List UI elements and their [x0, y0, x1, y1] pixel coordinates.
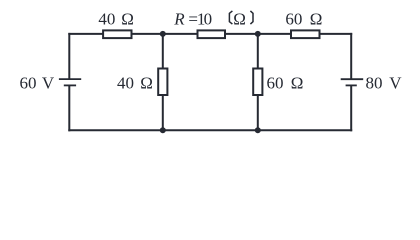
wire right upper [350, 33, 352, 79]
resistor 60ohm vertical box [253, 69, 262, 96]
wire left upper [68, 33, 70, 79]
svg-text:60V: 60V [20, 74, 55, 93]
wire right lower [350, 85, 352, 131]
svg-text:60Ω: 60Ω [285, 10, 322, 29]
svg-text:60Ω: 60Ω [267, 74, 304, 93]
resistor 40ohm vertical box [158, 69, 167, 96]
node bottom-left junction [160, 127, 166, 133]
wire top [68, 33, 352, 35]
node top-left junction [160, 31, 166, 37]
node bottom-right junction [255, 127, 261, 133]
resistor R3 60ohm box [291, 30, 320, 38]
resistor R1 40ohm box [103, 30, 131, 38]
bracket right of ohm unit [250, 11, 253, 24]
wire left lower [68, 85, 70, 131]
wire branch 1 vertical [162, 34, 164, 130]
battery E2 long plate [341, 78, 364, 80]
wire branch 2 vertical [257, 34, 259, 130]
battery E2 short plate [346, 84, 357, 86]
battery E1 long plate [59, 78, 81, 80]
node top-right junction [255, 31, 261, 37]
svg-text:40Ω: 40Ω [117, 73, 153, 92]
battery E1 short plate [64, 84, 76, 86]
svg-text:40Ω: 40Ω [98, 10, 134, 29]
wire bottom [68, 129, 352, 131]
bracket left of ohm unit [229, 11, 232, 24]
svg-text:R=10Ω: R=10Ω [173, 9, 246, 28]
svg-text:80V: 80V [366, 74, 403, 93]
resistor R 10ohm box [198, 30, 226, 38]
